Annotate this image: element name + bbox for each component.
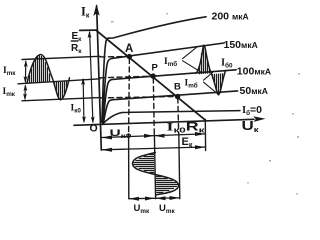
Ek/Rk double arrow bbox=[90, 32, 93, 121]
bottom dimension line bbox=[129, 197, 180, 200]
curve 150uA bbox=[102, 43, 224, 123]
Ik0 double arrow bbox=[82, 80, 85, 122]
dashed A horizontal bbox=[100, 56, 129, 58]
tick at Eк/Rк intercept bbox=[80, 29, 96, 31]
hatching right sine bbox=[200, 45, 225, 96]
point A bbox=[127, 54, 132, 59]
solid vertical below A bbox=[128, 134, 130, 199]
curve 50uA bbox=[103, 91, 237, 123]
left waveform top line bbox=[22, 56, 100, 59]
svg-text:Rк: Rк bbox=[71, 43, 82, 55]
svg-text:Uк: Uк bbox=[242, 119, 260, 134]
svg-text:Imк: Imк bbox=[3, 87, 16, 98]
svg-text:Umк: Umк bbox=[159, 203, 175, 214]
curve 100uA bbox=[103, 70, 236, 123]
Imb leader top bbox=[183, 47, 201, 72]
dashed B vertical bbox=[177, 98, 180, 134]
load line bbox=[96, 30, 205, 120]
solid vertical below B bbox=[179, 134, 180, 199]
row2 dimension line Ek bbox=[102, 147, 206, 150]
point P bbox=[150, 73, 155, 78]
svg-text:Umк: Umк bbox=[134, 203, 150, 214]
axis Y (Iк) bbox=[97, 6, 102, 150]
svg-text:Iк0: Iк0 bbox=[71, 104, 82, 115]
axis Y arrowhead bbox=[93, 4, 99, 16]
svg-text:P: P bbox=[152, 63, 159, 74]
dashed P vertical bbox=[153, 78, 154, 135]
curve Ib=0 bbox=[103, 111, 240, 124]
row1 arrowheads bbox=[102, 132, 206, 139]
axis X arrowhead bbox=[253, 116, 265, 122]
dashed A vertical bbox=[128, 59, 131, 135]
left sine wave bbox=[27, 54, 70, 99]
svg-text:Imк: Imк bbox=[3, 66, 16, 77]
left waveform mid line bbox=[18, 79, 100, 84]
Imk double arrow top bbox=[24, 62, 26, 82]
svg-text:200 мкА: 200 мкА bbox=[212, 11, 249, 23]
Imb leader bottom bbox=[204, 73, 219, 95]
scan specks bbox=[111, 13, 300, 195]
svg-text:O: O bbox=[90, 123, 98, 135]
svg-text:Iб0: Iб0 bbox=[221, 58, 233, 70]
left waveform bottom line bbox=[22, 98, 100, 101]
svg-text:Iк: Iк bbox=[81, 5, 90, 20]
bottom arrowheads bbox=[129, 196, 179, 201]
vertical at Ek bbox=[204, 119, 206, 150]
svg-text:Imб: Imб bbox=[185, 79, 198, 90]
svg-text:Iб=0: Iб=0 bbox=[242, 104, 262, 117]
svg-text:100мкА: 100мкА bbox=[237, 66, 271, 78]
svg-text:B: B bbox=[174, 82, 181, 93]
svg-text:A: A bbox=[125, 43, 133, 55]
Imk double arrow bottom bbox=[24, 86, 26, 99]
axis X (Uк) bbox=[74, 119, 254, 125]
svg-text:50мкА: 50мкА bbox=[240, 85, 268, 97]
bottom sine wave (output voltage) bbox=[132, 153, 178, 196]
hatching bottom sine bbox=[134, 155, 178, 193]
svg-text:Imб: Imб bbox=[164, 57, 177, 68]
dashed B horizontal bbox=[100, 97, 178, 98]
hatching left sine bbox=[30, 55, 67, 99]
row1 dimension line bbox=[102, 134, 206, 138]
solid vertical below P bbox=[154, 135, 155, 199]
right sine wave (base current) bbox=[196, 46, 226, 95]
svg-text:150мкА: 150мкА bbox=[224, 39, 258, 51]
point B bbox=[175, 94, 180, 99]
svg-text:Eк: Eк bbox=[182, 136, 193, 149]
dashed P horizontal bbox=[100, 76, 153, 78]
row2 arrowheads bbox=[102, 145, 206, 152]
curve 200uA bbox=[102, 17, 206, 122]
svg-text:Iк0Rк: Iк0Rк bbox=[167, 122, 205, 135]
